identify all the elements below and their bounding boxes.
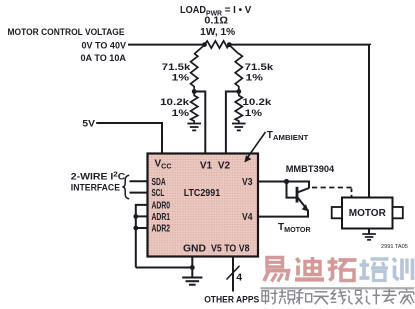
transistor Q1 MMBT3904: [297, 187, 309, 217]
resistor 10.2k left: [191, 92, 198, 124]
ground motor: [362, 234, 376, 240]
node V3 base tie: [284, 179, 289, 184]
wire GND pin: [191, 257, 193, 278]
node ADR1: [133, 214, 138, 219]
resistor 10.2k right: [235, 92, 242, 124]
wire V4: [258, 216, 309, 218]
resistor 71.5k right: [235, 54, 242, 92]
shunt resistor 0.1ohm: [205, 41, 230, 48]
wire V1: [194, 92, 205, 154]
wire SCL: [130, 192, 149, 194]
op IC U1 LTC2991: [148, 154, 259, 257]
wire right sense diagonal: [229, 45, 239, 54]
arrow T ambient: [248, 132, 266, 158]
watermark char di: [295, 257, 324, 280]
brace i2c: [123, 175, 130, 199]
node right divider: [236, 89, 241, 94]
watermark char pei: [360, 259, 389, 281]
wire left sense diagonal: [194, 45, 204, 54]
ground right divider: [232, 124, 246, 131]
watermark char xun: [393, 258, 413, 280]
watermark char pin: [279, 289, 295, 304]
node GND junction: [190, 265, 195, 270]
watermark char jia: [399, 289, 414, 304]
wire ADR2: [136, 227, 149, 229]
wire to motor: [229, 44, 370, 46]
watermark char tian: [313, 292, 329, 305]
node left divider: [192, 89, 197, 94]
watermark underline: [261, 287, 415, 289]
motor M1: [332, 198, 403, 229]
watermark char tuo: [328, 258, 357, 281]
node left shunt: [202, 42, 207, 47]
wire ADR0: [136, 205, 149, 268]
wire thermal dashed: [312, 187, 352, 189]
watermark char he: [296, 289, 312, 304]
watermark char zhuan: [382, 289, 397, 304]
wire motor ground lead: [368, 229, 370, 234]
bus slash: [227, 266, 240, 280]
wire V5 TO V8 bus: [232, 257, 234, 292]
wire ADR1: [136, 215, 149, 217]
watermark char she: [262, 290, 278, 305]
watermark char yi: [264, 258, 289, 282]
watermark char she2: [348, 290, 363, 304]
node ADR2: [133, 226, 138, 231]
ground GND pin: [182, 278, 202, 285]
wire base tie: [287, 182, 297, 198]
wire V2: [226, 92, 239, 154]
wire ADR to GND: [136, 267, 193, 269]
resistor 71.5k left: [191, 54, 198, 92]
watermark char xian: [331, 289, 347, 304]
wire V3: [258, 182, 309, 189]
wire SDA: [130, 180, 149, 182]
wire main input: [128, 44, 205, 46]
wire 5V to VCC: [96, 123, 162, 154]
node right shunt: [227, 42, 232, 47]
label MOTOR CONTROL VOLTAGE: [8, 27, 127, 64]
watermark char ji: [366, 289, 381, 304]
ground left divider: [187, 124, 201, 131]
wire motor drop: [368, 45, 370, 198]
